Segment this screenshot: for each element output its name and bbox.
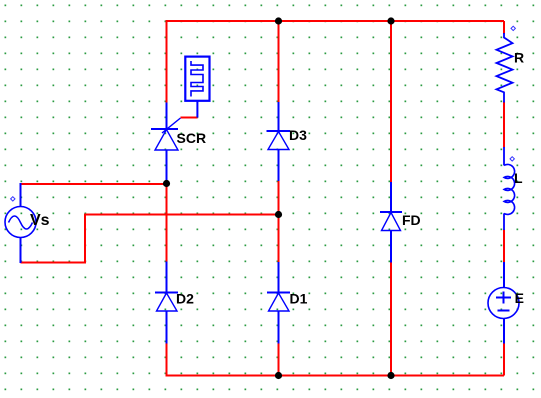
diode FD bottom pin bbox=[390, 231, 392, 263]
wire E to bottom rail bbox=[503, 343, 505, 376]
SCR gate lead bbox=[162, 118, 181, 133]
junction node bottom FD column bbox=[387, 372, 394, 379]
diode FD triangle bbox=[382, 213, 401, 231]
battery E plus sign bbox=[496, 292, 511, 304]
svg-text:FD: FD bbox=[402, 212, 421, 228]
pulse source waveform bbox=[191, 61, 203, 97]
diode D3 bar bbox=[267, 130, 291, 132]
junction node bottom D1 column bbox=[275, 372, 282, 379]
diode FD top pin bbox=[390, 182, 392, 212]
wire D3 column top bbox=[278, 21, 280, 103]
SCR triangle bbox=[155, 130, 178, 151]
svg-text:R: R bbox=[514, 50, 524, 66]
svg-text:E: E bbox=[515, 290, 524, 306]
diode D1 bar bbox=[267, 292, 290, 294]
wire SCR cathode to node A bbox=[166, 180, 168, 262]
source Vs bottom pin bbox=[20, 238, 22, 264]
junction node B (mid D column) bbox=[275, 211, 282, 218]
source Vs sine wave bbox=[9, 216, 33, 229]
inductor L coils bbox=[504, 164, 515, 214]
inductor L top pin bbox=[503, 147, 505, 165]
diode D1 bottom pin bbox=[278, 311, 280, 344]
diode D2 triangle bbox=[157, 293, 178, 311]
source Vs top pin bbox=[20, 183, 22, 207]
wire right column top (into R) bbox=[503, 21, 505, 34]
svg-text:Vs: Vs bbox=[30, 212, 50, 229]
diode D3 bottom pin bbox=[278, 150, 280, 182]
wire gate to pulse source bbox=[181, 117, 198, 119]
wire D3 to D1 through node B bbox=[278, 181, 280, 263]
wire FD column top bbox=[390, 21, 392, 183]
junction node A (SCR cathode / Vs) bbox=[163, 180, 170, 187]
svg-text:L: L bbox=[514, 170, 523, 186]
junction node top D3 column bbox=[275, 17, 282, 24]
wire bottom rail bbox=[167, 343, 505, 376]
diode D3 triangle bbox=[268, 132, 289, 150]
inductor L bottom pin bbox=[503, 213, 505, 230]
svg-text:D2: D2 bbox=[176, 290, 194, 306]
source Vs circle bbox=[5, 207, 36, 238]
SCR cathode pin bbox=[166, 150, 168, 181]
wire R to L bbox=[503, 102, 505, 148]
pin marker diamond L bbox=[510, 157, 514, 161]
diode D2 bar bbox=[155, 292, 178, 294]
pulse source pin bbox=[196, 101, 198, 118]
diode D1 top pin bbox=[278, 262, 280, 293]
battery E minus sign bbox=[498, 310, 510, 312]
pin marker diamond Vs bbox=[11, 197, 15, 201]
svg-text:D1: D1 bbox=[290, 290, 308, 306]
diode D2 top pin bbox=[166, 262, 168, 293]
battery E bottom pin bbox=[503, 319, 505, 344]
pulse source G1 body bbox=[185, 57, 209, 101]
SCR cathode bar bbox=[151, 128, 178, 130]
wire FD to bottom rail bbox=[390, 262, 392, 376]
wire D1 to bottom rail bbox=[278, 343, 280, 376]
junction node top FD column bbox=[387, 17, 394, 24]
diode D1 triangle bbox=[269, 293, 290, 311]
diode D3 top pin bbox=[278, 102, 280, 131]
wire Vs bottom to node B bbox=[21, 215, 279, 263]
diode FD bar bbox=[380, 211, 402, 213]
diode D2 bottom pin bbox=[166, 311, 168, 344]
battery E circle bbox=[488, 288, 519, 319]
wire D2 to bottom rail bbox=[166, 343, 168, 376]
wire L to E bbox=[503, 230, 505, 263]
wire Vs top to SCR cathode node bbox=[21, 183, 167, 185]
resistor R zigzag bbox=[497, 33, 513, 103]
SCR anode pin bbox=[166, 103, 168, 130]
wire top rail bbox=[167, 21, 505, 103]
svg-text:D3: D3 bbox=[289, 127, 307, 143]
battery E top pin bbox=[503, 262, 505, 288]
svg-text:SCR: SCR bbox=[177, 130, 207, 146]
pin marker diamond R bbox=[511, 26, 515, 30]
